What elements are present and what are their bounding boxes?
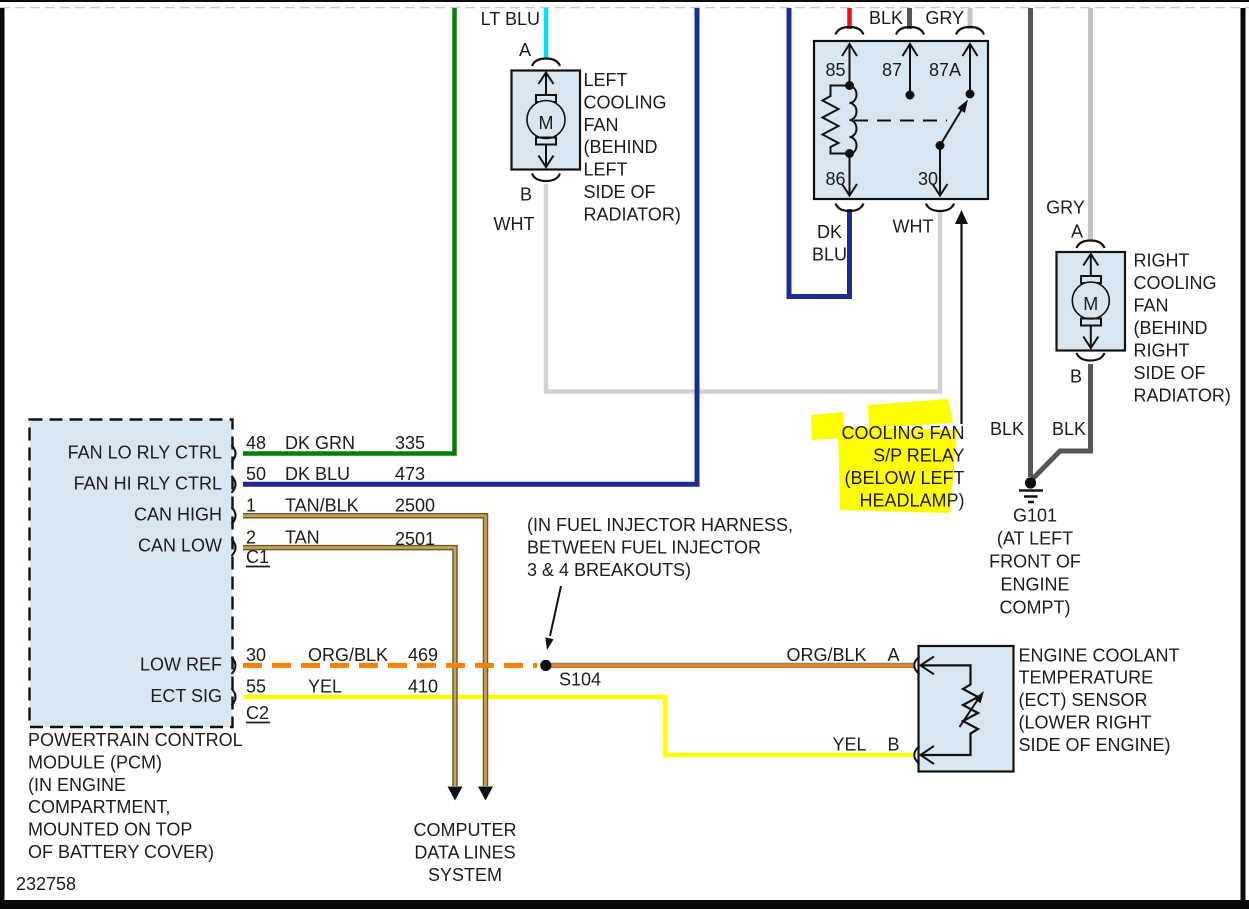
svg-text:A: A <box>1071 222 1083 242</box>
wire GRY to right fan A <box>1088 8 1093 241</box>
right cooling fan motor box <box>1057 252 1126 351</box>
svg-text:COMPUTER: COMPUTER <box>414 820 517 840</box>
svg-text:COOLING: COOLING <box>584 92 667 112</box>
relay pin 30 lead <box>939 146 941 196</box>
svg-text:BETWEEN FUEL INJECTOR: BETWEEN FUEL INJECTOR <box>527 537 761 557</box>
svg-text:GRY: GRY <box>925 8 964 28</box>
svg-text:3 & 4 BREAKOUTS): 3 & 4 BREAKOUTS) <box>527 560 691 580</box>
connector arc above relay pin 87 <box>896 27 924 35</box>
svg-text:473: 473 <box>395 464 425 484</box>
wire TAN/BLK 2500 from PCM 1 down to data lines <box>243 516 486 786</box>
svg-text:WHT: WHT <box>494 214 535 234</box>
svg-text:ENGINE: ENGINE <box>1000 575 1069 595</box>
svg-text:COMPARTMENT,: COMPARTMENT, <box>28 797 170 817</box>
svg-text:COOLING: COOLING <box>1134 273 1217 293</box>
svg-text:RADIATOR): RADIATOR) <box>1134 386 1231 406</box>
wire BLK from right fan B to ground G101 <box>1032 364 1091 480</box>
PCM pin bracket 48 <box>232 445 236 462</box>
relay K_coolfan box <box>814 41 988 199</box>
svg-text:85: 85 <box>825 60 845 80</box>
svg-text:BLK: BLK <box>1052 419 1086 439</box>
svg-text:1: 1 <box>246 496 256 516</box>
relay resistor <box>823 86 850 154</box>
svg-text:G101: G101 <box>1013 506 1057 526</box>
left cooling fan connector arc A <box>532 59 560 67</box>
svg-text:M: M <box>539 113 554 133</box>
wire LT BLU vertical to left fan A <box>544 8 549 58</box>
svg-text:BLK: BLK <box>990 419 1024 439</box>
ECT thermistor arrow <box>960 699 979 728</box>
left fan motor arrow up <box>545 73 547 96</box>
svg-text:335: 335 <box>395 433 425 453</box>
svg-text:(BELOW LEFT: (BELOW LEFT <box>844 468 964 488</box>
left fan motor arrow down <box>545 144 547 167</box>
svg-text:BLK: BLK <box>869 8 903 28</box>
left fan brush top <box>536 95 556 102</box>
ground G101 symbol <box>1025 477 1036 488</box>
relay coil <box>850 86 857 154</box>
svg-text:48: 48 <box>246 433 266 453</box>
wire DK GRN 335 from PCM 48 up to top <box>243 8 455 454</box>
relay pin 86 lead <box>849 154 851 196</box>
splice S104 dot <box>540 660 551 671</box>
connector arc above relay pin 85 <box>836 27 864 35</box>
svg-text:RIGHT: RIGHT <box>1134 341 1190 361</box>
svg-text:FAN HI RLY CTRL: FAN HI RLY CTRL <box>74 474 222 494</box>
wire BLK to relay pin 87 <box>907 8 912 29</box>
svg-text:B: B <box>887 735 899 755</box>
svg-text:30: 30 <box>246 645 266 665</box>
svg-text:YEL: YEL <box>308 677 342 697</box>
relay pin 87 lead <box>909 44 911 95</box>
svg-text:TAN/BLK: TAN/BLK <box>285 496 359 516</box>
relay switch arm <box>940 107 964 146</box>
frame left border <box>0 8 5 909</box>
svg-text:SIDE OF: SIDE OF <box>584 182 656 202</box>
svg-text:(BEHIND: (BEHIND <box>1134 318 1208 338</box>
frame top line <box>0 0 1249 2</box>
svg-text:RADIATOR): RADIATOR) <box>584 204 681 224</box>
wire BLK to ground G101 <box>1028 8 1033 477</box>
svg-text:HEADLAMP): HEADLAMP) <box>859 491 964 511</box>
svg-text:(LOWER RIGHT: (LOWER RIGHT <box>1019 713 1152 733</box>
connector arc below relay pin 30 <box>926 204 954 212</box>
data line arrow TAN <box>448 787 463 801</box>
svg-text:B: B <box>1070 367 1082 387</box>
svg-text:ENGINE COOLANT: ENGINE COOLANT <box>1019 645 1180 665</box>
wire ORG/BLK 469 dashed from PCM 30 to splice S104 <box>243 663 537 668</box>
ECT pin A chevron <box>921 657 935 675</box>
left fan brush bottom <box>536 138 556 145</box>
svg-text:S/P RELAY: S/P RELAY <box>873 446 964 466</box>
svg-text:DK: DK <box>817 222 842 242</box>
left fan motor circle M <box>527 101 565 139</box>
connector arc below relay pin 86 <box>836 204 864 212</box>
svg-text:BLU: BLU <box>812 245 847 265</box>
frame top dashed line <box>0 7 1249 9</box>
right cooling fan connector arc A <box>1077 241 1105 249</box>
PCM box <box>30 420 233 728</box>
wire DK BLU 473 from PCM 50 up to top <box>243 8 697 484</box>
svg-text:ORG/BLK: ORG/BLK <box>308 645 388 665</box>
svg-text:55: 55 <box>246 677 266 697</box>
connector arc above relay pin 87A <box>956 27 984 35</box>
right fan brush bottom <box>1081 319 1101 326</box>
ECT sensor bracket B <box>914 746 919 764</box>
svg-text:CAN LOW: CAN LOW <box>138 536 222 556</box>
PCM pin bracket 1 <box>232 507 236 524</box>
svg-text:C1: C1 <box>246 547 269 567</box>
svg-text:(BEHIND: (BEHIND <box>584 137 658 157</box>
wire ORG/BLK solid from S104 to ECT sensor A <box>551 663 914 668</box>
svg-text:LT BLU: LT BLU <box>481 9 540 29</box>
svg-text:TAN: TAN <box>285 528 320 548</box>
data line arrow TAN/BLK <box>478 787 493 801</box>
svg-text:C2: C2 <box>246 703 269 723</box>
svg-text:(ECT) SENSOR: (ECT) SENSOR <box>1019 690 1148 710</box>
svg-text:(AT LEFT: (AT LEFT <box>997 529 1073 549</box>
ECT sensor internal wire and thermistor <box>922 665 978 755</box>
frame right border <box>1241 8 1246 909</box>
right fan motor circle M <box>1072 282 1109 319</box>
svg-text:469: 469 <box>408 645 438 665</box>
left cooling fan connector arc B <box>532 174 560 182</box>
svg-text:410: 410 <box>408 677 438 697</box>
svg-text:OF BATTERY COVER): OF BATTERY COVER) <box>28 842 214 862</box>
wire YEL 410 from PCM 55 to ECT sensor B <box>243 697 914 755</box>
svg-text:SIDE OF: SIDE OF <box>1134 363 1206 383</box>
svg-text:86: 86 <box>825 169 845 189</box>
svg-text:YEL: YEL <box>832 735 866 755</box>
wire DK BLU from relay pin 86 U-turn to top <box>789 8 850 297</box>
svg-text:2: 2 <box>246 528 256 548</box>
svg-text:TEMPERATURE: TEMPERATURE <box>1019 668 1154 688</box>
svg-text:50: 50 <box>246 464 266 484</box>
svg-text:FAN: FAN <box>1134 296 1169 316</box>
PCM pin bracket 55 <box>232 689 236 706</box>
svg-text:DATA LINES: DATA LINES <box>414 842 515 862</box>
svg-text:LEFT: LEFT <box>584 160 628 180</box>
relay dashed actuation line <box>854 120 947 122</box>
svg-text:MODULE (PCM): MODULE (PCM) <box>28 752 162 772</box>
PCM pin bracket 30 <box>232 657 236 674</box>
svg-text:(IN ENGINE: (IN ENGINE <box>28 775 126 795</box>
svg-text:2500: 2500 <box>395 496 435 516</box>
svg-text:GRY: GRY <box>1046 198 1085 218</box>
fuel injector note arrow <box>550 586 561 636</box>
svg-text:FRONT OF: FRONT OF <box>989 552 1081 572</box>
svg-text:LOW REF: LOW REF <box>140 654 222 674</box>
svg-text:SIDE OF ENGINE): SIDE OF ENGINE) <box>1019 735 1171 755</box>
svg-text:FAN LO RLY CTRL: FAN LO RLY CTRL <box>68 443 222 463</box>
svg-text:DK GRN: DK GRN <box>285 433 355 453</box>
wire WHT from left fan B to relay pin 30 <box>546 184 940 392</box>
svg-text:232758: 232758 <box>16 874 76 894</box>
svg-text:ECT SIG: ECT SIG <box>150 686 222 706</box>
relay pin 87A lead <box>969 44 971 94</box>
svg-text:87: 87 <box>882 60 902 80</box>
right cooling fan connector arc B <box>1077 353 1105 361</box>
cooling fan relay callout arrow <box>960 223 962 424</box>
frame bottom border <box>0 900 1249 909</box>
svg-text:30: 30 <box>918 169 938 189</box>
svg-text:A: A <box>887 645 899 665</box>
svg-text:M: M <box>1083 294 1098 314</box>
svg-text:SYSTEM: SYSTEM <box>428 865 502 885</box>
svg-text:ORG/BLK: ORG/BLK <box>786 645 866 665</box>
svg-text:COMPT): COMPT) <box>1000 598 1071 618</box>
right fan brush top <box>1081 276 1101 283</box>
PCM pin bracket 50 <box>232 476 236 493</box>
svg-text:87A: 87A <box>929 60 961 80</box>
wire RED to relay pin 85 <box>847 8 852 29</box>
highlighter mark left bar <box>811 412 844 440</box>
svg-text:S104: S104 <box>559 670 601 690</box>
svg-text:FAN: FAN <box>584 115 619 135</box>
ECT pin B chevron <box>921 746 935 764</box>
highlighter mark body <box>838 427 957 513</box>
wire GRY to relay pin 87A <box>968 8 973 29</box>
svg-text:POWERTRAIN CONTROL: POWERTRAIN CONTROL <box>28 730 243 750</box>
svg-text:A: A <box>519 40 531 60</box>
right fan motor arrow up <box>1090 254 1092 276</box>
svg-text:DK BLU: DK BLU <box>285 464 350 484</box>
PCM pin bracket 2 <box>232 539 236 556</box>
svg-text:COOLING FAN: COOLING FAN <box>841 423 964 443</box>
svg-text:WHT: WHT <box>893 217 934 237</box>
svg-text:CAN HIGH: CAN HIGH <box>134 505 222 525</box>
left cooling fan motor box <box>512 71 581 170</box>
svg-text:MOUNTED ON TOP: MOUNTED ON TOP <box>28 820 192 840</box>
svg-text:(IN FUEL INJECTOR HARNESS,: (IN FUEL INJECTOR HARNESS, <box>527 515 793 535</box>
svg-text:LEFT: LEFT <box>584 70 628 90</box>
relay pin 85 lead <box>849 44 851 86</box>
svg-text:RIGHT: RIGHT <box>1134 251 1190 271</box>
wire TAN 2501 from PCM 2 down to data lines <box>243 548 455 786</box>
svg-text:2501: 2501 <box>395 529 435 549</box>
svg-text:B: B <box>520 185 532 205</box>
ECT sensor box <box>919 646 1014 772</box>
highlighter mark top bar <box>868 399 953 428</box>
right fan motor arrow down <box>1090 325 1092 348</box>
ECT sensor bracket A <box>914 656 919 674</box>
